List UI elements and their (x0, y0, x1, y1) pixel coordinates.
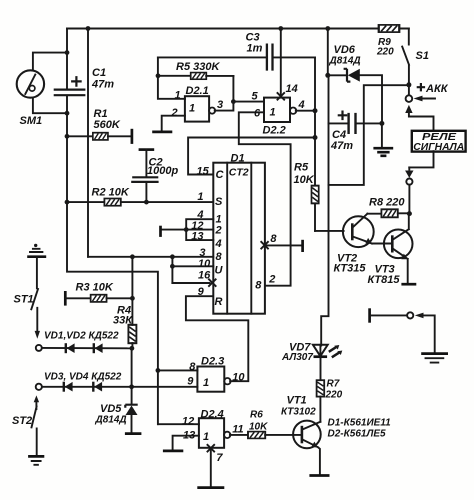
wire D2.3 output pin 10 to D1 pin R (186, 286, 248, 381)
node VD3 line / VD5 junction (129, 384, 134, 389)
svg-text:D1-К561ИЕ11: D1-К561ИЕ11 (328, 418, 392, 429)
svg-text:СИГНАЛА: СИГНАЛА (413, 142, 464, 153)
svg-text:2: 2 (268, 274, 275, 286)
wire D2.2 output pin 4 (296, 99, 318, 113)
svg-text:R7: R7 (327, 379, 340, 390)
D1 output pin 2 labels (255, 274, 275, 292)
svg-text:Д814Д: Д814Д (95, 415, 127, 426)
svg-text:VD5: VD5 (100, 403, 122, 415)
node R8 / VT3 collector junction (407, 211, 412, 216)
svg-text:1: 1 (189, 103, 195, 115)
resistor R5 10K (294, 162, 319, 204)
resistor R1 560K with open terminal (65, 108, 132, 144)
resistor R4 33K (113, 257, 136, 349)
node SM1 bottom junction (65, 111, 70, 116)
svg-text:АКК: АКК (425, 83, 449, 95)
svg-text:КТ815: КТ815 (368, 274, 401, 286)
svg-text:1: 1 (175, 90, 181, 102)
pushbutton ST2 with chassis ground (12, 395, 44, 464)
wire second bus x88 (87, 29, 89, 257)
ground at C4 (373, 121, 393, 156)
wire D2.2 pin 6 feedback from D1 pin 2 output (239, 108, 291, 286)
node top rail / D2.2 pin14 junction (278, 26, 283, 31)
wire top supply rail (67, 28, 409, 30)
svg-text:1: 1 (203, 377, 209, 389)
svg-text:ST2: ST2 (12, 415, 32, 427)
wire +AKK to C4 branch (329, 85, 409, 185)
connector plug/socket to relay (upper) (405, 85, 435, 131)
label C4 47m (330, 129, 353, 152)
capacitor C3 1m (158, 32, 315, 71)
wire D1 pin 16 input (172, 270, 216, 287)
wire C3 right to R5 10K vertical (314, 57, 316, 231)
resistor R9 (376, 25, 399, 58)
node SM1 top junction (65, 50, 70, 55)
LED VD7 АЛ307 (281, 342, 342, 380)
gate D2.2 (263, 98, 297, 137)
diode VD1 (66, 343, 75, 353)
svg-text:D2.3: D2.3 (201, 356, 224, 368)
svg-text:SM1: SM1 (20, 115, 43, 127)
svg-text:8: 8 (189, 361, 196, 373)
svg-text:1m: 1m (247, 43, 263, 55)
svg-text:4: 4 (215, 238, 222, 250)
D2.4 pin 7 to ground (197, 444, 224, 487)
wire D2.3 pin 8 (156, 361, 198, 373)
resistor R5 330K (156, 61, 234, 79)
transistor VT2 КТ315 (334, 214, 374, 275)
svg-text:S1: S1 (416, 50, 429, 62)
svg-text:VD1,VD2 КД522: VD1,VD2 КД522 (44, 331, 119, 342)
gate D2.3 (197, 356, 245, 392)
svg-text:R8 220: R8 220 (369, 197, 405, 209)
resistor R8 220 (367, 197, 409, 218)
wire D2.2 pin 14 from rail (277, 29, 298, 101)
switch S1 (402, 29, 429, 85)
wire VD1 VD2 line (42, 347, 132, 349)
svg-text:47m: 47m (91, 79, 114, 91)
svg-text:ST1: ST1 (14, 294, 34, 306)
svg-text:Д814Д: Д814Д (329, 56, 361, 67)
wire R5 to VT2 base (315, 230, 344, 232)
node +AKK junction (406, 82, 411, 87)
wire D1 weight inputs 1 2 4 (pins 4 12 13) (161, 209, 214, 243)
svg-text:D1: D1 (231, 153, 245, 165)
svg-text:1000p: 1000p (147, 165, 178, 177)
node +AKK label (418, 83, 449, 95)
svg-text:D2.1: D2.1 (186, 85, 209, 97)
node top rail / x88 bus junction (86, 26, 91, 31)
wire main positive branch down to VD7 (321, 75, 328, 345)
svg-text:33К: 33К (113, 315, 133, 327)
svg-text:1: 1 (197, 191, 203, 203)
svg-text:10K: 10K (294, 174, 315, 186)
diode VD2 (94, 343, 103, 353)
svg-text:1: 1 (270, 107, 276, 119)
svg-text:2: 2 (215, 225, 222, 237)
svg-text:220: 220 (325, 390, 343, 401)
svg-text:АЛ307: АЛ307 (281, 352, 313, 363)
wire left vertical bus x68 (66, 29, 68, 203)
svg-text:8: 8 (270, 233, 277, 245)
svg-text:11: 11 (232, 424, 243, 436)
relay box РЕЛЕ СИГНАЛА (412, 131, 466, 153)
svg-text:D2.2: D2.2 (263, 125, 286, 137)
zener VD6 Д814Д (325, 29, 382, 124)
pushbutton ST1 with chassis ground (14, 244, 47, 339)
capacitor C1 47m (55, 67, 114, 95)
sensor SM1 (17, 53, 67, 127)
wire relay box to lower connector (409, 151, 433, 167)
svg-text:7: 7 (216, 452, 223, 464)
wire clock line to D1 pin C (188, 138, 315, 178)
resistor R2 10K (65, 187, 214, 206)
wire D2.1 output pin 3 (215, 76, 236, 111)
svg-text:16: 16 (198, 270, 211, 282)
svg-text:13: 13 (191, 231, 203, 243)
wire VD3 VD4 line to D2.3 pin 9 (42, 386, 197, 388)
capacitor C4 47m (329, 112, 383, 134)
wire D2.4 pin 13 to ground (163, 430, 199, 451)
wire D1 pin 10 U input (170, 257, 213, 283)
resistor R3 10K (65, 282, 135, 306)
terminal with connector and earth ground lower right (370, 308, 448, 362)
svg-text:D2-К561ЛЕ5: D2-К561ЛЕ5 (328, 429, 386, 440)
diode VD4 (93, 382, 102, 392)
capacitor C2 1000p (132, 150, 178, 205)
resistor R6 10K (230, 410, 302, 439)
wire D1 pin 3 weight 8 input (88, 247, 213, 259)
svg-text:1: 1 (203, 431, 209, 443)
svg-text:VD6: VD6 (334, 44, 356, 56)
gate D2.4 (199, 409, 244, 448)
diode VD3 (64, 382, 73, 392)
svg-text:8: 8 (216, 251, 223, 263)
transistor VT3 КТ815 (368, 214, 417, 286)
svg-text:КТ315: КТ315 (334, 263, 367, 275)
counter D1 CT2 (213, 153, 265, 314)
connector plug/socket from relay (lower) (405, 167, 413, 213)
svg-text:VD3, VD4 КД522: VD3, VD4 КД522 (44, 372, 122, 383)
svg-text:U: U (215, 265, 224, 277)
svg-text:13: 13 (183, 430, 195, 442)
transistor VT1 КТ3102 (281, 395, 330, 476)
terminal circle ST2 line (36, 384, 42, 390)
svg-text:2: 2 (171, 107, 178, 119)
svg-text:R5: R5 (294, 162, 309, 174)
terminal circle ST1 line (36, 345, 42, 351)
svg-text:C1: C1 (92, 67, 106, 79)
svg-text:D2.4: D2.4 (201, 409, 224, 421)
svg-text:R3 10K: R3 10K (76, 282, 114, 294)
svg-text:15: 15 (197, 166, 210, 178)
svg-text:CT2: CT2 (229, 167, 249, 179)
svg-text:10K: 10K (249, 422, 268, 433)
zener VD5 Д814Д to ground (95, 348, 142, 433)
svg-text:R2 10K: R2 10K (92, 187, 130, 199)
resistor R7 220 (317, 379, 343, 422)
wire D2.4 pin 12 (158, 416, 199, 428)
svg-text:C: C (216, 169, 225, 181)
svg-text:3: 3 (217, 99, 223, 111)
svg-text:8: 8 (255, 280, 262, 292)
svg-text:R6: R6 (250, 410, 263, 421)
wire D2.2 pin 5 (233, 91, 264, 103)
wire D2.1 pin 2 to ground (152, 107, 185, 132)
svg-text:КТ3102: КТ3102 (281, 407, 316, 418)
svg-text:47m: 47m (330, 140, 353, 152)
svg-text:14: 14 (286, 83, 298, 95)
svg-text:12: 12 (182, 416, 194, 428)
svg-text:220: 220 (376, 47, 394, 58)
label D1-D2 part numbers (328, 418, 392, 440)
node VD1 line / R4 junction (130, 346, 135, 351)
svg-text:10: 10 (198, 258, 211, 270)
svg-text:560K: 560K (94, 119, 121, 131)
svg-text:S: S (215, 196, 223, 208)
node top rail / VD6 branch junction (325, 26, 330, 31)
svg-text:R5 330K: R5 330K (176, 61, 220, 73)
wire left bus x68 to D2.4 pin12 riser (67, 202, 158, 424)
gate D2.1 (185, 85, 215, 122)
wire D2.1 pin 1 (158, 57, 185, 101)
node D2.2 out / C clock line junction (313, 135, 318, 140)
svg-text:R: R (215, 296, 223, 308)
D1 output 8 with terminal (261, 233, 303, 252)
svg-text:6: 6 (254, 108, 261, 120)
svg-text:4: 4 (298, 99, 305, 111)
svg-text:9: 9 (198, 286, 205, 298)
svg-text:VT1: VT1 (287, 395, 307, 407)
svg-text:5: 5 (252, 91, 259, 103)
